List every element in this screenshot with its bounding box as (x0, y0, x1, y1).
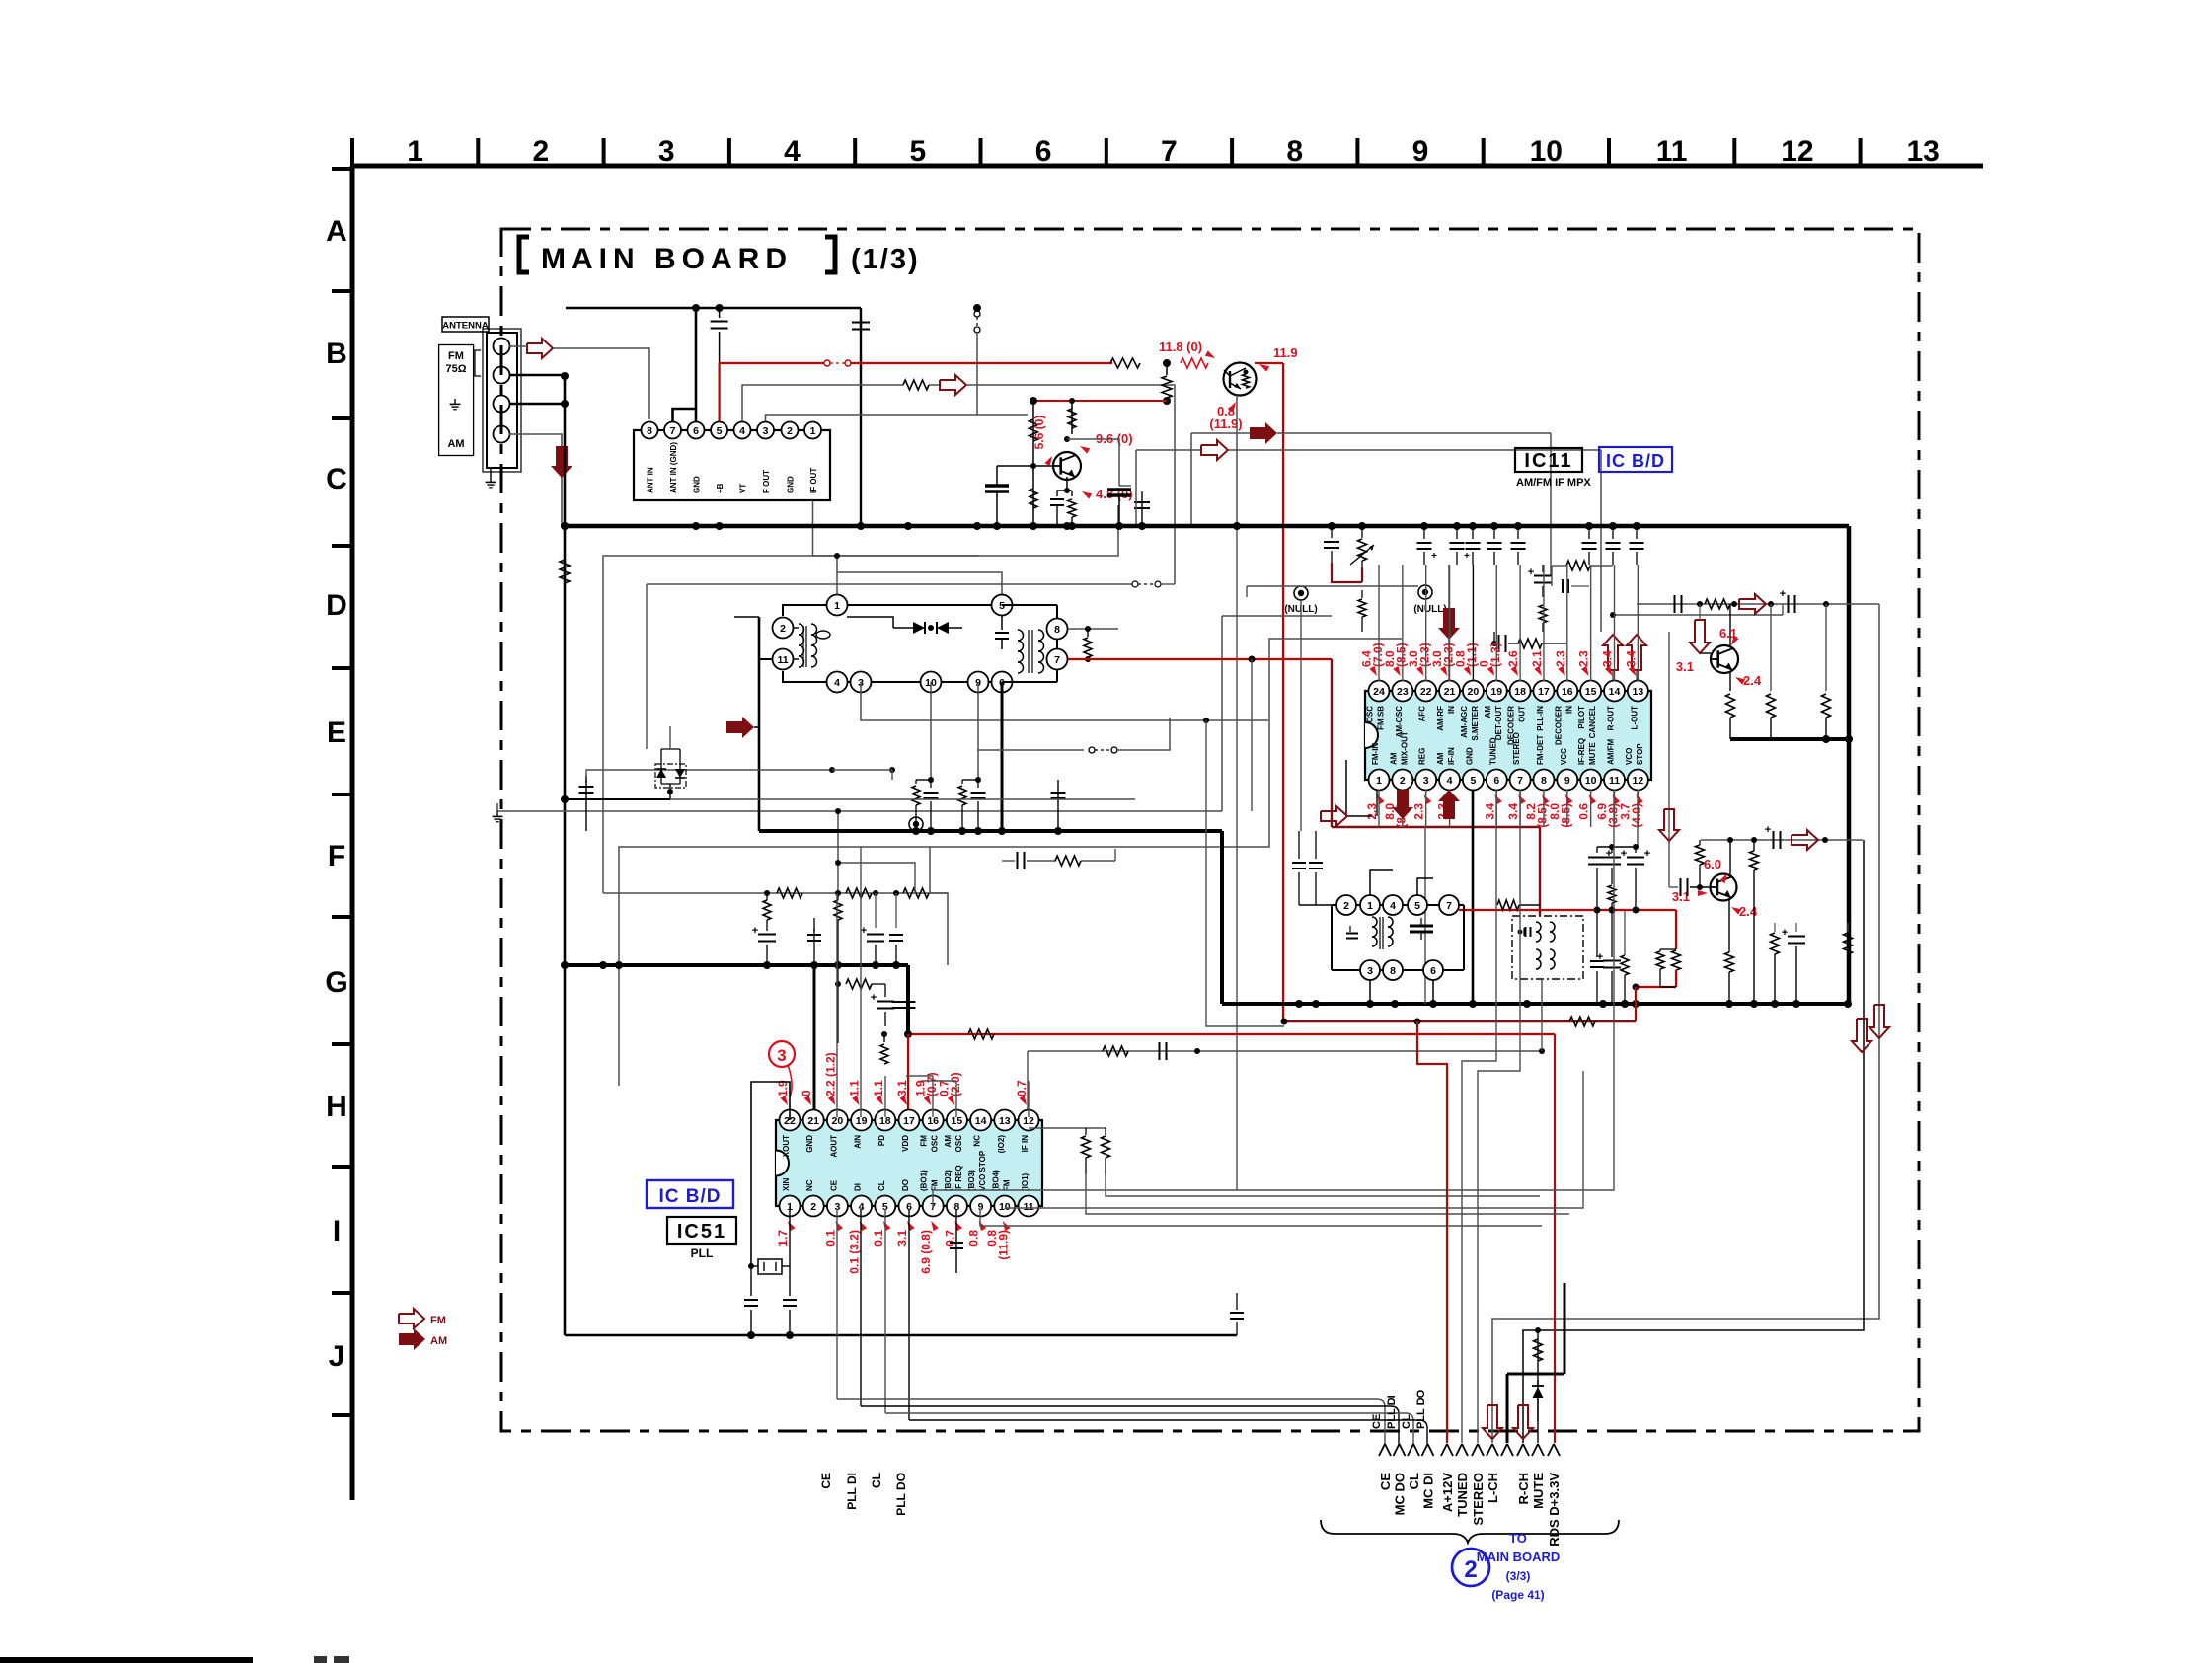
svg-text:(NULL): (NULL) (1413, 604, 1446, 615)
resistor R 9.6 branch (1071, 401, 1073, 434)
svg-text:3.1: 3.1 (1676, 659, 1694, 674)
IC51 pin 19 AIN (851, 1110, 872, 1131)
svg-text:IF IN: IF IN (1021, 1135, 1030, 1153)
svg-text:21: 21 (807, 1115, 819, 1127)
svg-text:1.1: 1.1 (848, 1080, 862, 1096)
title MAIN BOARD 1/3 (519, 237, 529, 272)
svg-text:PLL DO: PLL DO (1415, 1389, 1427, 1429)
svg-text:CL: CL (877, 1180, 886, 1191)
wire FM antenna to tuner ANT IN (509, 345, 527, 347)
T2 coils (1372, 917, 1377, 927)
wire pin8 out (1068, 628, 1118, 630)
svg-text:MAIN BOARD: MAIN BOARD (1477, 1550, 1561, 1564)
module pin 3 F OUT (757, 422, 774, 439)
ruler left line (350, 166, 355, 1500)
label IC11 box (1515, 448, 1582, 472)
wire maroon FM IF down (1331, 659, 1333, 827)
svg-text:4: 4 (739, 425, 745, 437)
discriminator block T2 (1332, 904, 1464, 906)
IC11 pin 22 AFC (1415, 681, 1436, 702)
svg-text:23: 23 (1397, 686, 1409, 698)
wire CE run (837, 1398, 1377, 1400)
module pin 7 ANT IN (GND) (664, 422, 681, 439)
maroon down arrow to Q4 (1668, 632, 1670, 887)
series cap res to pin18 (1494, 643, 1496, 644)
IC51 pin 20 AOUT (827, 1110, 848, 1131)
svg-text:A+12V: A+12V (1440, 1473, 1455, 1512)
svg-text:5: 5 (909, 135, 926, 168)
svg-text:12: 12 (1781, 135, 1813, 168)
svg-text:2: 2 (1343, 900, 1349, 912)
bullseye shield (909, 817, 923, 831)
IC11 pin 10 IF-REQ MUTE (1580, 770, 1601, 791)
svg-text:3: 3 (777, 1046, 786, 1065)
svg-text:14: 14 (975, 1115, 987, 1127)
svg-text:FM: FM (931, 1179, 940, 1191)
resistor chain y905 (603, 892, 948, 894)
mixer ground bus y842 (759, 829, 1222, 833)
resistor R below junction (1166, 363, 1168, 375)
long loop from module to right (977, 414, 1028, 416)
IC11 pin 23 AM-OSC (1392, 681, 1412, 702)
wire A+12V (1417, 1021, 1447, 1443)
wire pin11 input (759, 658, 772, 660)
wire gnd stub F (497, 810, 1222, 812)
IC11 pin 16 DECODER IN (1557, 681, 1577, 702)
svg-text:14: 14 (1609, 686, 1621, 698)
svg-text:E: E (327, 717, 346, 749)
svg-text:2: 2 (810, 1201, 816, 1213)
wire T2 pin3 down (1369, 980, 1371, 1004)
ceramic filter CF1 (1512, 916, 1583, 979)
svg-text:(BO2): (BO2) (944, 1170, 953, 1191)
svg-text:CE: CE (1378, 1473, 1393, 1490)
IC51 pin 18 PD (875, 1110, 895, 1131)
wire CL run (885, 1412, 1406, 1414)
svg-text:2.4: 2.4 (1739, 904, 1758, 919)
wire pin1 up (836, 556, 838, 594)
svg-text:2: 2 (780, 623, 786, 635)
FM signal arrow (527, 339, 553, 358)
wire T2 pin6 down (1432, 980, 1434, 1004)
IC51 pin 8 (BO2) IF REQ (947, 1196, 967, 1217)
G bus corner down x920 (906, 965, 910, 1034)
long grey lines mid (933, 790, 1614, 1209)
transistor Q2 FM RF (1053, 452, 1081, 480)
svg-text:(2.0): (2.0) (949, 1072, 962, 1096)
svg-text:0.7: 0.7 (943, 1230, 956, 1247)
wire pin10 down (930, 682, 932, 780)
wire pin9 down (977, 682, 979, 780)
label IC51 box (667, 1217, 736, 1244)
svg-text:0.6: 0.6 (1577, 803, 1591, 820)
svg-text:8: 8 (1541, 775, 1547, 787)
svg-text:IN: IN (1564, 706, 1573, 714)
svg-text:10: 10 (1585, 775, 1597, 787)
svg-text:1: 1 (1367, 900, 1373, 912)
svg-text:VCO: VCO (1625, 748, 1634, 765)
wire Q1 collector red right (1255, 362, 1283, 364)
jumper top caps (1597, 846, 1636, 848)
svg-text:11: 11 (1609, 775, 1620, 787)
cap res series right of mixer (1002, 860, 1015, 862)
svg-text:STEREO: STEREO (1512, 732, 1521, 765)
loop x1222 (1206, 720, 1284, 1026)
antenna jack J1 (487, 333, 517, 468)
wire loop L1 (603, 556, 978, 893)
T2 pins (1336, 895, 1356, 915)
resistor cap pairs under mixer (915, 780, 917, 784)
IC51 pin 2 NC (803, 1196, 824, 1217)
thick gnd x825 (813, 965, 816, 1117)
svg-text:NC: NC (973, 1135, 982, 1147)
svg-text:11.9: 11.9 (1273, 345, 1298, 360)
trimmer resistor (1361, 526, 1363, 538)
cap columns x1657 (1635, 847, 1637, 853)
resistor x1872 lower (1847, 923, 1849, 932)
svg-text:AM: AM (1484, 706, 1492, 718)
mixer right edge (1056, 639, 1058, 649)
svg-text:FM.SB: FM.SB (1377, 706, 1386, 730)
IC11 pin 5 GND (1463, 770, 1484, 791)
transformer L1 left (799, 624, 804, 635)
svg-text:0.1 (3.2): 0.1 (3.2) (848, 1230, 862, 1274)
pin12 VCO STOP down (1637, 790, 1639, 847)
svg-text:11.8 (0): 11.8 (0) (1159, 340, 1202, 354)
svg-text:9: 9 (1412, 135, 1429, 168)
svg-text:MC DI: MC DI (1421, 1473, 1436, 1509)
wire 9.6 node right to cap (1067, 439, 1119, 486)
caps above T2 (1298, 831, 1300, 859)
svg-text:6.0: 6.0 (1704, 857, 1721, 871)
svg-text:(11.9): (11.9) (997, 1230, 1011, 1260)
ruler top ticks (350, 138, 354, 166)
svg-text:IF-REQ: IF-REQ (1577, 738, 1586, 765)
red line y922 (1459, 909, 1676, 911)
capacitor C ant top (719, 308, 721, 318)
red riser x1698 (1675, 910, 1677, 949)
wire right column x1904 (1492, 604, 1879, 1443)
connector pin RDS D+3.3V (1548, 1444, 1554, 1456)
res cap drops to G bus (766, 893, 768, 900)
svg-text:VCC: VCC (1560, 748, 1568, 765)
svg-text:18: 18 (1514, 686, 1526, 698)
svg-text:CE: CE (829, 1179, 838, 1191)
svg-text:+: + (1644, 848, 1650, 860)
IC51 bottom signal wires (836, 1209, 838, 1399)
IC11 pin 15 PILOT CANCEL (1580, 681, 1601, 702)
svg-text:+: + (1431, 551, 1437, 562)
svg-text:3.4: 3.4 (1601, 650, 1615, 667)
cap drops group2 (1423, 526, 1425, 539)
mixer pins (827, 595, 848, 616)
IC11 pin 13 L-OUT (1628, 681, 1648, 702)
cap x1253 up (1236, 1322, 1238, 1335)
svg-text:CL: CL (1401, 1414, 1412, 1429)
wire pin7 elbow (673, 409, 697, 421)
down arrow audio (1690, 620, 1710, 653)
Q4 emitter (1728, 899, 1730, 952)
IC51 pin 22 XOUT (780, 1110, 801, 1131)
wire Q1 emitter down grey (1236, 395, 1238, 526)
wire diode top (847, 617, 893, 628)
wire AM IF line maroon arrow (1191, 432, 1250, 434)
FM-IN arrow (1346, 760, 1372, 816)
IC11 pin 3 REG (1415, 770, 1436, 791)
svg-text:0: 0 (800, 1090, 813, 1096)
svg-text:22: 22 (1420, 686, 1432, 698)
IC51 pin 12 IF IN (1019, 1110, 1039, 1131)
bus corner x1238 (1220, 831, 1224, 1004)
wire +B red (718, 363, 720, 421)
svg-text:OSC: OSC (954, 1135, 963, 1153)
svg-text:GND: GND (693, 476, 702, 493)
FM mixer coil block T1 (783, 605, 1002, 616)
svg-text:+: + (1780, 588, 1786, 600)
IC11 pin5 GND down thick (1472, 790, 1475, 1004)
svg-text:2: 2 (1400, 775, 1406, 787)
svg-text:(BO3): (BO3) (967, 1170, 976, 1191)
IC51 top wires (836, 893, 838, 1117)
connector pin CL (1408, 1444, 1413, 1456)
Q4 collector (1729, 840, 1731, 875)
IC51 pin 14 NC (970, 1110, 991, 1131)
svg-text:MIX-OUT: MIX-OUT (1400, 731, 1409, 765)
null bullseyes (1294, 586, 1308, 600)
wire bottom run y1353 (565, 1334, 1237, 1337)
svg-text:15: 15 (1585, 686, 1597, 698)
IF IN line (1027, 1051, 1029, 1117)
svg-text:8: 8 (647, 425, 652, 437)
wire module top bus (566, 307, 861, 309)
dash break line E (1132, 581, 1138, 587)
svg-text:AM/FM IF MPX: AM/FM IF MPX (1516, 477, 1591, 489)
IC11 pin 17 PLL-IN (1533, 681, 1554, 702)
svg-text:3.4: 3.4 (1483, 803, 1496, 820)
svg-text:AOUT: AOUT (829, 1135, 838, 1158)
IC51 pin 21 GND (803, 1110, 824, 1131)
svg-text:17: 17 (1538, 686, 1550, 698)
down arrows right lower (1852, 1019, 1871, 1052)
resistor left of Q2 (1032, 465, 1034, 467)
svg-text:8: 8 (1054, 624, 1060, 636)
wire pin14 branch (1613, 614, 1783, 616)
IC11 bottom pin stubs (1378, 790, 1380, 827)
svg-text:4: 4 (784, 135, 801, 168)
svg-text:(1.3): (1.3) (1488, 643, 1502, 667)
transformer L2 right (1018, 630, 1024, 641)
svg-text:+B: +B (716, 483, 725, 493)
svg-text:GND: GND (1465, 747, 1474, 765)
y874 link (838, 863, 915, 893)
svg-text:AM: AM (447, 438, 464, 450)
brace to main board (1321, 1520, 1619, 1543)
svg-text:NC: NC (805, 1179, 814, 1191)
varactor diode pair D5 (655, 764, 686, 788)
IC11 pin 6 TUNED (1487, 770, 1507, 791)
svg-text:75Ω: 75Ω (445, 363, 466, 375)
svg-text:S.METER: S.METER (1471, 706, 1480, 741)
svg-text:FM: FM (1002, 1179, 1011, 1191)
svg-text:5: 5 (1470, 775, 1476, 787)
maroon A12V rail (1284, 1020, 1636, 1022)
capacitor right x1157 (1141, 498, 1143, 526)
svg-text:6: 6 (693, 425, 699, 437)
arrow down L-CH (1483, 1405, 1502, 1439)
svg-text:RDS D+3.3V: RDS D+3.3V (1547, 1473, 1562, 1547)
resistor R B+ line (1110, 358, 1140, 368)
svg-text:MC DO: MC DO (1393, 1473, 1408, 1515)
wire VT pin4 (742, 385, 903, 421)
IC11 pin 11 AM/FM (1604, 770, 1625, 791)
wire F OUT pin3 (766, 415, 978, 421)
wire grey null (1247, 585, 1418, 587)
svg-text:5.6 (0): 5.6 (0) (1032, 416, 1046, 450)
module pin 1 IF OUT (804, 422, 821, 439)
svg-text:CE: CE (1371, 1414, 1383, 1429)
svg-text:+: + (1765, 824, 1771, 836)
svg-text:11: 11 (1656, 135, 1688, 168)
svg-text:A: A (326, 215, 347, 248)
svg-text:OSC: OSC (1366, 706, 1375, 723)
maroon down arrow to pin21 (1448, 565, 1450, 608)
svg-text:3.1: 3.1 (895, 1230, 909, 1247)
svg-text:OUT: OUT (1518, 706, 1527, 722)
T2 cap (1349, 926, 1351, 932)
svg-text:AIN: AIN (854, 1135, 863, 1149)
svg-text:2.3: 2.3 (1554, 650, 1567, 667)
resistor below pcap (1539, 605, 1547, 623)
svg-text:AM: AM (1389, 752, 1398, 765)
svg-text:REG: REG (1418, 748, 1427, 765)
svg-text:AFC: AFC (1418, 706, 1427, 722)
IC51 pin 3 CE (827, 1196, 848, 1217)
res x1646 (1624, 910, 1626, 955)
svg-text:17: 17 (903, 1115, 915, 1127)
wires right of IC51 (1086, 1174, 1569, 1214)
svg-text:DET-OUT: DET-OUT (1494, 706, 1503, 740)
svg-text:7: 7 (670, 425, 676, 437)
capacitor drops to IC11 (1331, 526, 1333, 538)
wire left vertical x572 (564, 375, 567, 1335)
open arrows up pins 14 13 (1603, 635, 1623, 670)
capacitor under pin8 net (1057, 790, 1059, 831)
red circled 3 (769, 1041, 795, 1067)
IC11 pin 8 FM-DET (1533, 770, 1554, 791)
svg-text:AM-RF: AM-RF (1436, 706, 1445, 731)
svg-text:3: 3 (763, 425, 769, 437)
svg-text:12: 12 (1633, 775, 1644, 787)
svg-text:F OUT: F OUT (762, 470, 771, 493)
wire antenna gnd pins to left vertical (509, 374, 565, 376)
svg-text:F: F (328, 840, 345, 872)
IC51 pin 17 VDD (899, 1110, 920, 1131)
wire varactor top (669, 726, 671, 749)
IC51 pin 10 (BO4) FM (994, 1196, 1015, 1217)
wire pin5 up (837, 572, 1002, 594)
capacitor left x594 (585, 780, 587, 831)
svg-text:I: I (333, 1215, 341, 1247)
module pin 4 VT (734, 422, 751, 439)
svg-text:2.3: 2.3 (1577, 650, 1591, 667)
IC11 pin 1 FM-IN (1369, 770, 1390, 791)
thick L near connector (1507, 1373, 1564, 1376)
svg-text:L-CH: L-CH (1486, 1473, 1500, 1503)
IC51 pin 9 (BO3) VCO STOP (970, 1196, 991, 1217)
svg-text:5: 5 (717, 425, 723, 437)
svg-text:+: + (752, 925, 758, 937)
connector pin MC DI (1422, 1444, 1428, 1456)
diode D MUTE (1537, 1380, 1539, 1386)
wire pin7 red out (1068, 658, 1332, 660)
IC11 pin 14 R-OUT (1604, 681, 1625, 702)
legend FM arrow (399, 1309, 424, 1328)
T2 top wires (1370, 870, 1393, 895)
resistor R 11.8 red (1181, 358, 1208, 368)
svg-text:+: + (1782, 927, 1788, 939)
svg-text:3.4: 3.4 (1506, 803, 1520, 820)
wire maroon junction to trimmer (1332, 563, 1362, 582)
transistor Q4 (1711, 874, 1737, 901)
svg-text:0.1: 0.1 (872, 1230, 885, 1247)
wire varactor bottom (661, 783, 680, 785)
thick wire x769 (758, 617, 761, 831)
svg-text:19: 19 (1490, 686, 1502, 698)
svg-text:0.8: 0.8 (967, 1230, 981, 1247)
svg-text:PILOT: PILOT (1577, 706, 1586, 729)
svg-text:STEREO: STEREO (1471, 1473, 1486, 1525)
svg-text:D: D (326, 589, 347, 622)
svg-text:2.2 (1.2): 2.2 (1.2) (823, 1052, 837, 1096)
IC body IC11 (1365, 691, 1651, 780)
svg-text:4: 4 (834, 677, 840, 689)
svg-text:21: 21 (1444, 686, 1456, 698)
svg-text:IF-IN: IF-IN (1447, 747, 1456, 765)
transistor Q1 RF amp (1224, 363, 1257, 396)
module pin 2 GND (782, 422, 799, 439)
bus y1022 (1222, 1002, 1850, 1006)
capacitor ceramic mid (1119, 485, 1131, 487)
svg-text:2.1: 2.1 (1530, 650, 1544, 667)
IC51 pin 13 (IO2) (994, 1110, 1015, 1131)
wire x1047 down (1032, 401, 1034, 526)
svg-text:STOP: STOP (1636, 743, 1644, 765)
svg-text:13: 13 (999, 1115, 1011, 1127)
svg-text:AM: AM (430, 1335, 447, 1347)
crystal caps (750, 1266, 752, 1296)
svg-text:+: + (861, 925, 867, 937)
svg-text:10: 10 (1530, 135, 1563, 168)
connector pin CE (1379, 1444, 1385, 1456)
svg-text:TO: TO (1509, 1531, 1527, 1546)
IC51 pin 15 AM OSC (947, 1110, 967, 1131)
bracket FM group (475, 350, 481, 376)
svg-text:2: 2 (1464, 1556, 1477, 1583)
svg-text:FM-IN: FM-IN (1371, 743, 1380, 765)
arrow down R-CH (1513, 1405, 1533, 1439)
svg-text:+: + (1597, 951, 1603, 963)
resistor x1682 parallel (1660, 948, 1676, 950)
label IC B/D right (1599, 447, 1672, 472)
cap columns x1618 (1596, 847, 1598, 853)
svg-text:IC11: IC11 (1524, 450, 1572, 472)
FM front end module M1 (634, 430, 830, 500)
pol cap network right (1542, 565, 1544, 572)
wire x849 down (837, 811, 839, 893)
svg-text:AM: AM (944, 1135, 953, 1148)
svg-text:IN: IN (1447, 706, 1456, 714)
IC11 pin 21 AM-RF IN (1439, 681, 1460, 702)
